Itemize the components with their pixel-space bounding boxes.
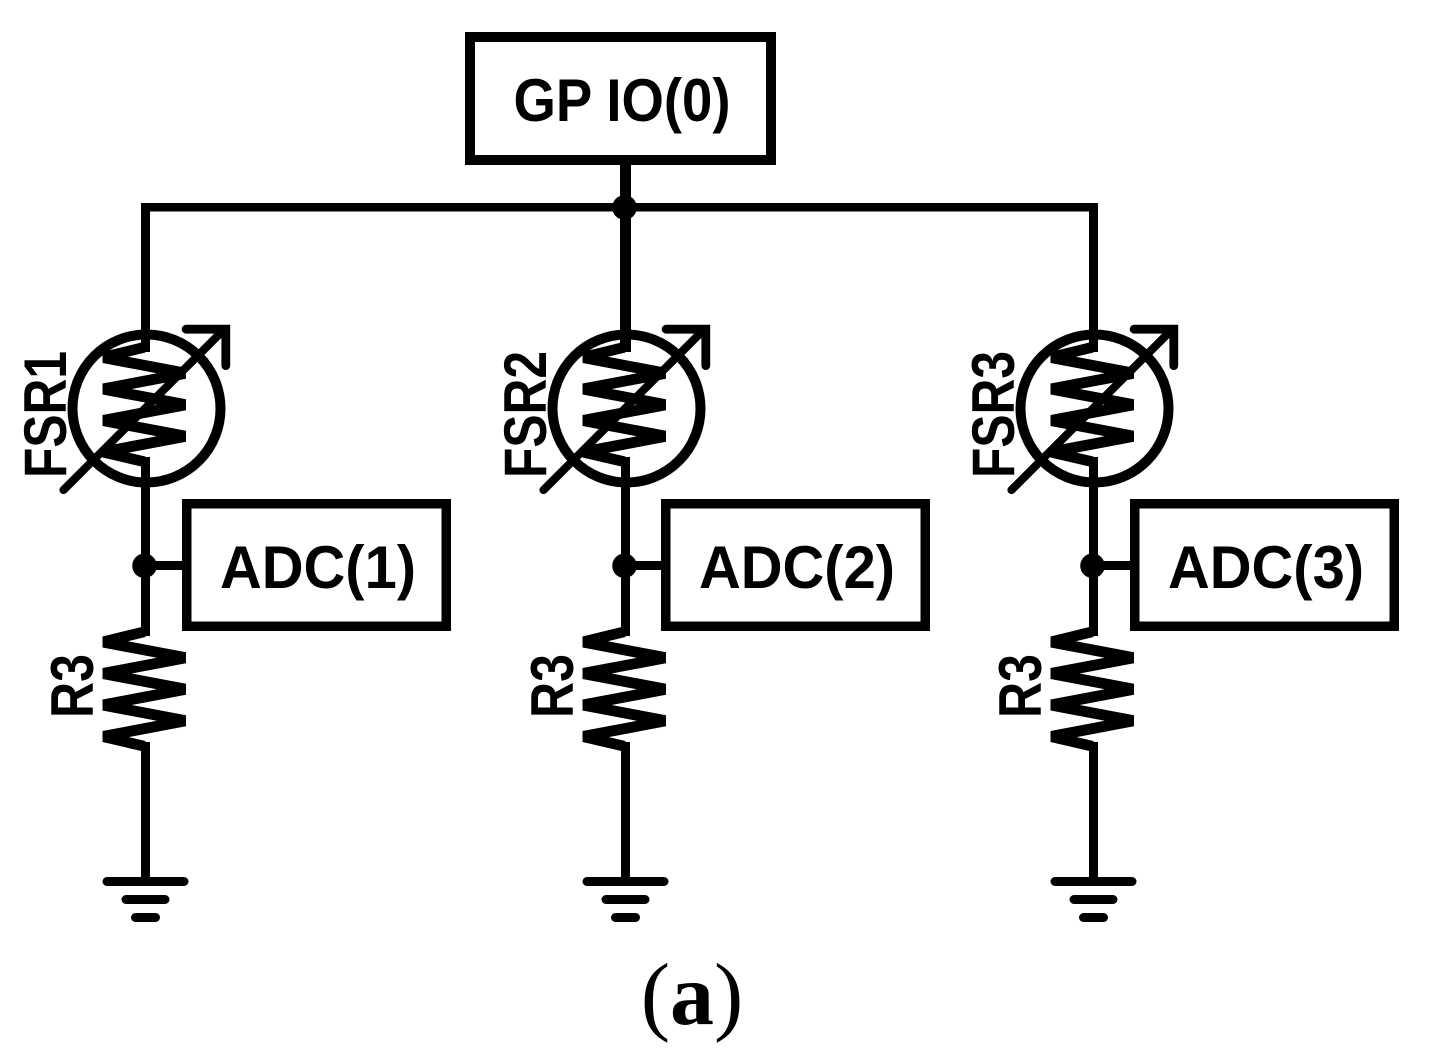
ADC(2) box (666, 504, 926, 627)
FSR sensor FSR1 (force-sensing resistor) (64, 329, 226, 490)
svg-text:(a): (a) (641, 947, 744, 1044)
wire node 1 to ADC(1) (145, 561, 189, 570)
svg-text:FSR1: FSR1 (12, 351, 79, 478)
wire bus to FSR3 (1089, 203, 1098, 352)
svg-text:R3: R3 (987, 654, 1054, 718)
wire FSR2 to node 2 (621, 457, 630, 636)
junction node 3 (FSR/R3/ADC tap) (1080, 554, 1105, 579)
wire bus to FSR1 (141, 203, 150, 352)
wire FSR3 to node 3 (1089, 457, 1098, 636)
resistor R3 (branch 1) (103, 626, 187, 752)
ADC(1) box (187, 504, 447, 627)
FSR sensor FSR3 (force-sensing resistor) (1012, 329, 1174, 490)
ADC(3) box (1135, 504, 1395, 627)
svg-text:GP IO(0): GP IO(0) (514, 67, 731, 134)
junction node 2 (FSR/R3/ADC tap) (612, 554, 637, 579)
wire bus to FSR2 (620, 203, 631, 352)
svg-text:FSR2: FSR2 (492, 351, 559, 478)
resistor R3 (branch 3) (1051, 626, 1135, 752)
GPIO(0) box (470, 37, 771, 160)
resistor R3 (branch 2) (583, 626, 667, 752)
ground (branch 2) (587, 882, 664, 918)
ground (branch 3) (1055, 882, 1132, 918)
wire from GPIO(0) to bus (620, 160, 631, 212)
wire node 3 to ADC(3) (1093, 561, 1137, 570)
svg-text:R3: R3 (519, 654, 586, 718)
svg-text:ADC(1): ADC(1) (220, 534, 416, 601)
svg-text:R3: R3 (39, 654, 106, 718)
svg-text:FSR3: FSR3 (960, 351, 1027, 478)
wire R3 to ground (branch 2) (621, 742, 630, 881)
svg-text:ADC(2): ADC(2) (699, 534, 895, 601)
junction node 1 (FSR/R3/ADC tap) (132, 554, 157, 579)
wire R3 to ground (branch 3) (1089, 742, 1098, 881)
bus wire (horizontal net from GPIO) (141, 203, 1098, 212)
wire FSR1 to node 1 (141, 457, 150, 636)
wire R3 to ground (branch 1) (141, 742, 150, 881)
svg-text:ADC(3): ADC(3) (1168, 534, 1364, 601)
wire node 2 to ADC(2) (625, 561, 668, 570)
junction node on bus (612, 195, 637, 220)
ground (branch 1) (107, 882, 184, 918)
FSR sensor FSR2 (force-sensing resistor) (544, 329, 706, 490)
